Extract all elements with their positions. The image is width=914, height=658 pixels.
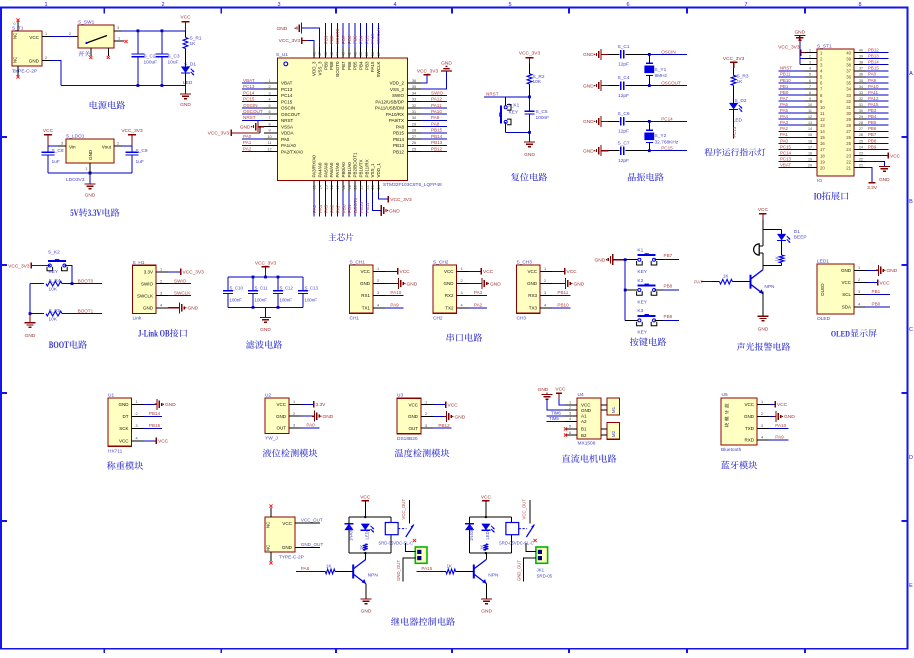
svg-text:VCC_OUT: VCC_OUT xyxy=(401,499,406,520)
svg-text:44: 44 xyxy=(336,52,340,56)
svg-text:13: 13 xyxy=(313,185,317,189)
svg-text:OUT: OUT xyxy=(277,426,287,431)
svg-text:S_CH1: S_CH1 xyxy=(350,259,366,265)
svg-text:E: E xyxy=(909,583,913,589)
svg-text:27: 27 xyxy=(846,129,851,134)
svg-text:PB14: PB14 xyxy=(393,137,405,142)
LDO GND pin 1 stub xyxy=(89,163,91,173)
svg-text:PB9: PB9 xyxy=(664,314,673,319)
svg-text:GND_OUT: GND_OUT xyxy=(516,560,521,581)
svg-text:RX3: RX3 xyxy=(528,293,537,298)
svg-text:25: 25 xyxy=(412,147,416,151)
wire PC13 down from LED xyxy=(733,109,735,138)
svg-text:LED1: LED1 xyxy=(817,259,829,265)
svg-text:BOOT1: BOOT1 xyxy=(78,308,94,313)
svg-text:GND: GND xyxy=(583,52,594,58)
push button K1 KEY xyxy=(625,259,639,261)
svg-text:S_C1: S_C1 xyxy=(618,44,630,50)
svg-text:6: 6 xyxy=(626,2,629,8)
svg-text:K1: K1 xyxy=(637,248,643,254)
svg-text:VCC: VCC xyxy=(400,269,411,275)
svg-text:4: 4 xyxy=(135,437,137,441)
svg-text:U5: U5 xyxy=(722,392,728,398)
svg-text:39: 39 xyxy=(859,55,863,59)
svg-text:11: 11 xyxy=(820,111,825,116)
svg-text:3: 3 xyxy=(377,291,379,295)
caption filter circuit xyxy=(246,340,255,349)
svg-text:GND: GND xyxy=(574,281,585,287)
power VCC_3V3 at MCU pin VDDA xyxy=(230,130,232,136)
svg-text:PB11: PB11 xyxy=(557,290,568,295)
svg-text:S_C8: S_C8 xyxy=(52,148,64,154)
svg-text:PA4: PA4 xyxy=(318,204,323,213)
svg-text:PB12: PB12 xyxy=(438,423,450,428)
svg-text:4: 4 xyxy=(268,98,270,102)
ground GND LDO xyxy=(89,173,91,184)
svg-text:PB7: PB7 xyxy=(664,253,673,258)
svg-text:NPN: NPN xyxy=(368,573,379,579)
caption sound-light alarm circuit xyxy=(737,342,745,350)
svg-text:2: 2 xyxy=(69,32,71,36)
MCU right pins with net labels xyxy=(408,82,422,84)
svg-text:46: 46 xyxy=(324,52,328,56)
svg-text:PA8: PA8 xyxy=(396,124,405,129)
svg-text:100nF: 100nF xyxy=(255,298,268,303)
svg-text:VCC_3V3: VCC_3V3 xyxy=(417,68,439,74)
svg-text:VCC: VCC xyxy=(481,495,492,501)
svg-text:48: 48 xyxy=(312,52,316,56)
svg-text:14: 14 xyxy=(318,185,322,189)
S_T1 top no-connect stub xyxy=(17,21,19,31)
collector wire xyxy=(485,553,487,559)
svg-text:14: 14 xyxy=(820,129,825,134)
S_SW1 bottom stubs no-connect xyxy=(90,48,92,56)
ground at MCU pin VSSA xyxy=(258,126,264,128)
connector TYPE-C-2P output xyxy=(265,517,295,552)
svg-text:TX2: TX2 xyxy=(445,306,454,311)
svg-text:PA7: PA7 xyxy=(780,96,789,101)
relay driver loop wires xyxy=(349,516,391,518)
svg-text:8MHz: 8MHz xyxy=(655,73,668,79)
svg-text:S_C4: S_C4 xyxy=(618,75,630,81)
svg-text:GND: GND xyxy=(744,414,755,419)
svg-text:13: 13 xyxy=(820,123,825,128)
capacitor S_C9 1uF xyxy=(131,146,133,152)
caption relay control circuit xyxy=(391,617,400,625)
svg-text:RXD: RXD xyxy=(744,438,754,443)
svg-text:29: 29 xyxy=(846,117,851,122)
svg-text:SRD-05VDC-SL-C: SRD-05VDC-SL-C xyxy=(378,541,413,546)
svg-text:10K: 10K xyxy=(49,287,58,293)
svg-text:2: 2 xyxy=(160,279,162,283)
svg-text:1: 1 xyxy=(45,32,47,36)
svg-text:PA9: PA9 xyxy=(868,78,877,83)
svg-text:OSCIN: OSCIN xyxy=(281,106,295,111)
svg-text:32: 32 xyxy=(859,97,863,101)
svg-text:PB4: PB4 xyxy=(868,114,877,119)
driver U4 MX1508 xyxy=(577,398,601,439)
svg-text:3.3V: 3.3V xyxy=(867,185,878,191)
svg-text:SWIO: SWIO xyxy=(431,90,444,95)
svg-text:42: 42 xyxy=(347,52,351,56)
transistor NPN (relay PA8) xyxy=(352,565,354,579)
svg-text:28: 28 xyxy=(859,121,863,125)
svg-text:GND: GND xyxy=(441,60,452,66)
svg-text:43: 43 xyxy=(342,52,346,56)
svg-text:PB14: PB14 xyxy=(149,411,161,416)
connector S_H1 J-Link xyxy=(133,265,157,313)
resistor S_R3 1K xyxy=(731,75,736,85)
svg-text:100uF: 100uF xyxy=(144,59,158,65)
svg-text:28: 28 xyxy=(846,123,851,128)
svg-text:16: 16 xyxy=(330,185,334,189)
svg-text:12pF: 12pF xyxy=(618,62,629,68)
svg-text:27: 27 xyxy=(859,127,863,131)
svg-text:TIM5: TIM5 xyxy=(549,416,559,421)
svg-text:31: 31 xyxy=(859,103,863,107)
caption DC motor circuit xyxy=(562,454,570,462)
power VCC at IO pin 23 xyxy=(866,154,888,156)
svg-text:21: 21 xyxy=(360,185,364,189)
crystal S_Y2 32.768KHz xyxy=(648,121,650,130)
svg-text:PB12: PB12 xyxy=(431,146,443,151)
svg-text:GND: GND xyxy=(389,208,400,214)
svg-text:PA10: PA10 xyxy=(431,109,442,114)
svg-text:NC: NC xyxy=(13,57,18,63)
svg-text:VCC: VCC xyxy=(43,128,54,134)
svg-text:M2: M2 xyxy=(611,430,616,437)
wire S_K2 to BOOT0 xyxy=(64,266,72,284)
svg-text:S_C12: S_C12 xyxy=(280,286,294,291)
svg-text:6: 6 xyxy=(569,431,571,435)
svg-text:1uF: 1uF xyxy=(52,159,60,165)
svg-text:25: 25 xyxy=(859,139,863,143)
MCU top net label wires xyxy=(325,23,327,47)
svg-text:PA15: PA15 xyxy=(370,33,375,44)
svg-text:18: 18 xyxy=(342,185,346,189)
wire LDO bottom rail xyxy=(48,172,132,174)
svg-text:VCC_3V3: VCC_3V3 xyxy=(121,128,143,134)
svg-text:PB11: PB11 xyxy=(365,202,370,213)
svg-text:GND: GND xyxy=(180,102,191,108)
svg-text:23: 23 xyxy=(371,185,375,189)
svg-text:PA6: PA6 xyxy=(330,204,335,213)
svg-text:29: 29 xyxy=(859,115,863,119)
svg-text:1K: 1K xyxy=(359,545,364,550)
svg-text:VCC: VCC xyxy=(777,402,788,408)
diode 1N4007 xyxy=(344,524,353,531)
svg-text:40: 40 xyxy=(359,52,363,56)
relay coil xyxy=(385,523,398,535)
svg-text:PC14: PC14 xyxy=(780,150,792,155)
svg-text:17: 17 xyxy=(820,147,825,152)
svg-text:PA1: PA1 xyxy=(780,132,789,137)
svg-text:PA10/RX: PA10/RX xyxy=(386,112,404,117)
caption weighing module xyxy=(107,461,116,469)
svg-text:PA1: PA1 xyxy=(243,140,252,145)
svg-text:1: 1 xyxy=(160,268,162,272)
svg-text:PB5: PB5 xyxy=(353,61,358,70)
svg-text:PA4/A0: PA4/A0 xyxy=(317,162,322,177)
svg-text:PB9: PB9 xyxy=(868,144,877,149)
svg-text:S_C13: S_C13 xyxy=(305,286,319,291)
svg-text:S_C9: S_C9 xyxy=(136,148,148,154)
svg-text:PB10: PB10 xyxy=(780,78,791,83)
svg-text:SCL: SCL xyxy=(842,292,851,297)
svg-text:LED: LED xyxy=(733,118,743,124)
svg-text:GND: GND xyxy=(188,306,199,312)
svg-text:GND: GND xyxy=(583,83,594,89)
svg-text:33: 33 xyxy=(846,93,851,98)
caption power circuit xyxy=(90,101,98,109)
svg-text:PA12/USB/DP: PA12/USB/DP xyxy=(375,99,404,104)
caption crystal circuit xyxy=(628,173,636,181)
svg-text:PB4: PB4 xyxy=(359,61,364,70)
svg-text:1: 1 xyxy=(761,400,763,404)
svg-text:PB12: PB12 xyxy=(868,48,879,53)
svg-text:PA8: PA8 xyxy=(301,566,310,571)
ground at IO pins 2-3 xyxy=(800,41,805,59)
svg-text:PA15: PA15 xyxy=(370,61,375,72)
svg-text:IO: IO xyxy=(817,178,822,184)
svg-text:TX1: TX1 xyxy=(362,306,371,311)
svg-text:PC15: PC15 xyxy=(281,99,293,104)
ground at MCU pin VSS_1 xyxy=(372,191,381,211)
frame zone ticks top xyxy=(104,8,805,14)
svg-text:RX1: RX1 xyxy=(361,293,370,298)
svg-text:2: 2 xyxy=(293,412,295,416)
svg-text:PA11: PA11 xyxy=(868,90,879,95)
svg-text:10: 10 xyxy=(820,105,825,110)
svg-text:GND: GND xyxy=(794,30,805,36)
svg-text:1: 1 xyxy=(544,267,546,271)
svg-text:PA12: PA12 xyxy=(868,96,879,101)
svg-text:PA10: PA10 xyxy=(390,290,401,295)
net label VCC_OUT wire xyxy=(295,522,320,524)
svg-text:B: B xyxy=(909,199,913,205)
svg-text:1K: 1K xyxy=(723,273,728,278)
svg-text:PB3: PB3 xyxy=(868,108,877,113)
svg-text:BOOT: BOOT xyxy=(49,340,69,350)
LED S_D2 xyxy=(733,85,735,103)
push button K2 KEY xyxy=(625,289,639,291)
svg-text:2: 2 xyxy=(161,2,164,8)
svg-text:PA2: PA2 xyxy=(243,146,252,151)
svg-text:S_K2: S_K2 xyxy=(48,250,60,256)
svg-text:VDD_1: VDD_1 xyxy=(376,162,381,177)
svg-text:6: 6 xyxy=(809,79,811,83)
svg-text:9: 9 xyxy=(268,129,270,133)
svg-text:VCC: VCC xyxy=(276,402,286,407)
svg-text:30: 30 xyxy=(859,109,863,113)
caption key circuit xyxy=(630,338,639,347)
svg-text:S_U1: S_U1 xyxy=(276,52,288,58)
IO header right pin wires xyxy=(854,52,866,54)
resistor S_R1 1K xyxy=(185,31,187,38)
svg-text:KEY: KEY xyxy=(49,269,59,275)
svg-text:S_K1: S_K1 xyxy=(508,103,520,109)
svg-text:6: 6 xyxy=(268,110,270,114)
svg-text:PB11: PB11 xyxy=(780,72,791,77)
svg-text:PA7: PA7 xyxy=(694,279,703,284)
svg-text:2: 2 xyxy=(460,279,462,283)
svg-text:1K: 1K xyxy=(447,564,452,569)
svg-text:4: 4 xyxy=(569,417,571,421)
capacitor S_C11 100nF xyxy=(252,277,254,290)
svg-text:3: 3 xyxy=(858,290,860,294)
svg-text:NRST: NRST xyxy=(243,115,256,120)
svg-text:GND: GND xyxy=(595,258,606,264)
svg-text:NRST: NRST xyxy=(486,91,499,96)
svg-text:22: 22 xyxy=(365,185,369,189)
svg-text:1: 1 xyxy=(377,267,379,271)
svg-text:10K: 10K xyxy=(533,79,542,85)
svg-text:PB0: PB0 xyxy=(780,90,789,95)
svg-text:GND: GND xyxy=(276,414,287,419)
svg-text:TXD: TXD xyxy=(745,426,755,431)
power VCC at OLED pin 2 xyxy=(866,282,878,284)
relay driver loop wires xyxy=(470,516,512,518)
svg-text:1: 1 xyxy=(293,400,295,404)
svg-text:VCC: VCC xyxy=(841,280,851,285)
emitter to ground xyxy=(486,583,488,599)
svg-text:3: 3 xyxy=(544,291,546,295)
svg-text:2: 2 xyxy=(761,412,763,416)
svg-text:BOOT0: BOOT0 xyxy=(78,278,94,283)
svg-text:PA8: PA8 xyxy=(431,121,440,126)
svg-text:31: 31 xyxy=(846,105,851,110)
svg-text:VDDA: VDDA xyxy=(281,131,294,136)
svg-text:PB1: PB1 xyxy=(872,289,881,294)
svg-text:12: 12 xyxy=(820,117,825,122)
connector S_CH1 serial xyxy=(350,265,374,313)
svg-text:47: 47 xyxy=(318,52,322,56)
svg-text:4: 4 xyxy=(160,304,162,308)
svg-text:PC15: PC15 xyxy=(780,144,792,149)
svg-text:PB7: PB7 xyxy=(341,35,346,44)
motor connector M1 xyxy=(607,398,620,415)
svg-text:VCC: VCC xyxy=(444,269,454,274)
net label SWCLK xyxy=(168,295,191,297)
svg-text:GND: GND xyxy=(85,193,96,199)
svg-text:A1: A1 xyxy=(581,414,587,419)
svg-text:VCC_3V3: VCC_3V3 xyxy=(8,264,30,270)
connector S_CH3 serial xyxy=(517,265,541,313)
ground GND reset xyxy=(529,132,531,142)
svg-text:GND: GND xyxy=(25,333,36,339)
svg-text:PB9: PB9 xyxy=(323,35,328,44)
capacitor S_C5 100nF xyxy=(529,97,531,111)
svg-text:32: 32 xyxy=(846,99,851,104)
svg-text:5: 5 xyxy=(569,425,571,429)
svg-text:VCC: VCC xyxy=(890,153,901,159)
base resistor 1K (alarm) xyxy=(701,281,712,283)
relay contact xyxy=(519,528,527,530)
svg-text:3: 3 xyxy=(293,424,295,428)
svg-text:5: 5 xyxy=(508,2,511,8)
svg-text:24: 24 xyxy=(846,147,851,152)
resistor S_R5 10K xyxy=(30,313,44,315)
svg-text:PB3: PB3 xyxy=(364,61,369,70)
LDO pin 2 stub xyxy=(114,145,122,147)
capacitor S_C13 100nF xyxy=(302,277,304,290)
svg-text:4: 4 xyxy=(858,303,860,307)
svg-text:32.768KHz: 32.768KHz xyxy=(655,139,679,145)
svg-text:VBAT: VBAT xyxy=(780,162,791,167)
svg-text:TX3: TX3 xyxy=(529,306,538,311)
capacitor S_C2 100uF xyxy=(137,31,139,54)
svg-text:15: 15 xyxy=(820,135,825,140)
svg-text:VCC_3V3: VCC_3V3 xyxy=(183,270,205,276)
svg-text:2: 2 xyxy=(377,279,379,283)
svg-text:12pF: 12pF xyxy=(618,93,629,99)
svg-text:45: 45 xyxy=(330,52,334,56)
svg-text:GND: GND xyxy=(277,26,288,32)
svg-text:17: 17 xyxy=(336,185,340,189)
svg-text:S_Y1: S_Y1 xyxy=(655,67,667,73)
svg-text:100nF: 100nF xyxy=(230,298,243,303)
svg-text:PA11: PA11 xyxy=(431,103,442,108)
svg-text:VCC_3V3: VCC_3V3 xyxy=(723,56,745,62)
ground at MCU pin VSS_3 xyxy=(302,28,320,47)
svg-text:PB1: PB1 xyxy=(780,84,789,89)
svg-text:PA3: PA3 xyxy=(474,290,483,295)
connector S_ST1 IO header body xyxy=(817,49,854,176)
svg-text:B2: B2 xyxy=(581,433,587,438)
svg-text:S_ST1: S_ST1 xyxy=(817,43,832,49)
wire OSCIN xyxy=(648,53,651,56)
svg-text:29: 29 xyxy=(412,122,416,126)
LDO pin 3 stub xyxy=(58,145,66,147)
svg-text:GND: GND xyxy=(323,414,334,420)
svg-text:PB13: PB13 xyxy=(393,143,405,148)
svg-text:GND: GND xyxy=(581,408,592,413)
svg-text:35: 35 xyxy=(859,79,863,83)
svg-text:33: 33 xyxy=(859,91,863,95)
svg-text:Bluetooth: Bluetooth xyxy=(721,447,742,453)
svg-text:PC14: PC14 xyxy=(661,116,673,121)
S_SW1 pin 3 stub xyxy=(114,30,122,32)
svg-text:SWIO: SWIO xyxy=(174,278,187,283)
svg-text:NC: NC xyxy=(266,545,271,551)
svg-text:4: 4 xyxy=(460,304,462,308)
svg-text:PA2: PA2 xyxy=(780,126,789,131)
caption main chip xyxy=(328,233,336,241)
svg-text:VSSA: VSSA xyxy=(281,124,293,129)
base input resistor 1K xyxy=(417,571,441,573)
svg-text:VSS_1: VSS_1 xyxy=(370,163,375,178)
svg-text:KEY: KEY xyxy=(509,110,519,116)
svg-text:36: 36 xyxy=(859,73,863,77)
svg-text:24: 24 xyxy=(859,145,863,149)
resistor 1K (relay led) xyxy=(363,544,368,550)
svg-text:2: 2 xyxy=(569,406,571,410)
svg-text:28: 28 xyxy=(412,129,416,133)
svg-text:PB6: PB6 xyxy=(868,126,877,131)
svg-text:32: 32 xyxy=(412,104,416,108)
svg-text:15: 15 xyxy=(808,133,812,137)
svg-text:PC14: PC14 xyxy=(281,93,293,98)
svg-text:NRST: NRST xyxy=(780,66,792,71)
svg-text:U2: U2 xyxy=(265,392,271,398)
net label TIM wires xyxy=(547,415,566,417)
svg-text:OLED: OLED xyxy=(817,316,831,322)
svg-text:39: 39 xyxy=(365,52,369,56)
wire left vertical BOOT xyxy=(29,284,31,314)
svg-text:40: 40 xyxy=(859,49,863,53)
svg-text:100nF: 100nF xyxy=(536,115,550,121)
svg-text:PA10: PA10 xyxy=(775,423,786,428)
